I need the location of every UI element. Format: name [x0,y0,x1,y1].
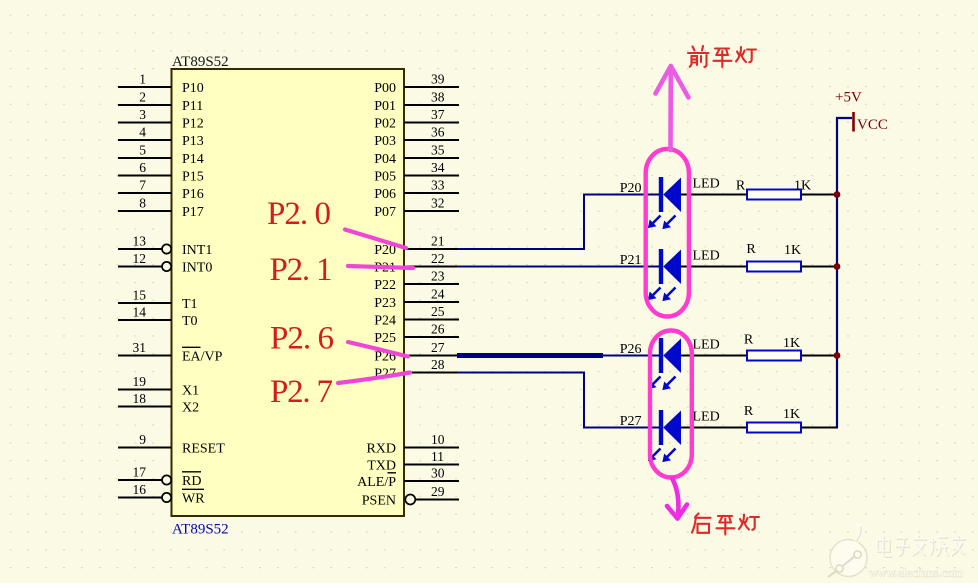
svg-text:8: 8 [139,196,146,211]
LED4 emission arrow b [663,449,676,462]
svg-text:LED: LED [693,410,720,425]
LED4 (LED D4) cathode bar [659,410,663,445]
svg-text:RXD: RXD [366,441,396,456]
svg-text:www.elecfans.com: www.elecfans.com [869,566,964,580]
svg-text:P2. 1: P2. 1 [270,252,333,288]
svg-text:13: 13 [133,234,147,249]
svg-text:36: 36 [431,125,445,140]
wire pin 4 stub (P13) [118,139,172,141]
svg-text:P23: P23 [374,296,396,311]
svg-text:26: 26 [431,322,445,337]
wire pin 28 stub (P27) [404,372,459,374]
LED2 emission arrow a [649,288,661,300]
LED1 triangle [663,178,681,213]
svg-text:1K: 1K [784,243,801,258]
wire pin 3 stub (P12) [118,122,172,124]
annotation arrow down (rear) [667,478,687,519]
annotation oval around LED3 LED4 (rear lights) [650,331,692,478]
wire pin 8 stub (P17) [118,210,172,212]
svg-text:15: 15 [133,288,147,303]
wire LED3 to R3 [681,355,747,357]
wire LED1 to R1 [681,194,747,196]
wire pin 26 stub (P25) [404,336,459,338]
overline for EA/VP [182,346,201,348]
svg-text:P16: P16 [182,187,204,202]
wire pin 35 stub (P04) [404,157,459,159]
svg-text:29: 29 [431,484,445,499]
power symbol VCC bar [852,112,855,132]
svg-text:30: 30 [431,466,445,481]
annotation pointer line P2.6 [348,342,408,357]
svg-text:RD: RD [182,474,201,489]
wire pin 21 stub (P20) [404,248,459,250]
junction node dot row3 [834,352,841,359]
junction node dot row2 [834,263,841,270]
svg-text:P04: P04 [374,152,396,167]
overline for RD [182,471,201,473]
svg-text:P05: P05 [374,169,396,184]
svg-text:P12: P12 [182,116,204,131]
svg-text:P22: P22 [374,278,396,293]
wire pin 9 stub (RESET) [118,447,172,449]
wire pin 32 stub (P07) [404,210,459,212]
svg-text:R: R [736,179,746,194]
svg-text:VCC: VCC [857,117,888,133]
svg-text:25: 25 [431,304,445,319]
wire pin 33 stub (P06) [404,192,459,194]
wire pin 5 stub (P14) [118,157,172,159]
svg-text:5: 5 [139,143,146,158]
svg-text:P2. 7: P2. 7 [270,374,333,410]
LED1 emission arrow b [663,216,676,229]
LED3 emission arrow a [649,377,661,389]
svg-text:4: 4 [139,125,146,140]
svg-text:LED: LED [693,249,720,264]
annotation pointer line P2.7 [338,373,410,384]
svg-text:P25: P25 [374,331,396,346]
svg-text:2: 2 [139,90,146,105]
LED1 (LED D1) cathode bar [659,177,663,212]
wire pin 39 stub (P00) [404,86,459,88]
watermark logo circle [828,525,867,577]
svg-text:P02: P02 [374,116,396,131]
wire pin 38 stub (P01) [404,104,459,106]
LED3 emission arrow b [663,377,676,390]
svg-text:LED: LED [693,338,720,353]
svg-text:31: 31 [133,340,147,355]
wire pin 17 stub (RD) [118,479,162,481]
svg-text:INT0: INT0 [182,260,212,275]
svg-text:1K: 1K [783,336,800,351]
wire pin 15 stub (T1) [118,302,172,304]
wire net P27 from pin 28 to LED4 [457,373,659,428]
svg-text:RESET: RESET [182,441,225,456]
svg-text:10: 10 [431,432,445,447]
svg-text:P00: P00 [374,81,396,96]
wire pin 29 stub (PSEN) [416,499,460,501]
svg-text:P15: P15 [182,169,204,184]
svg-text:P2. 0: P2. 0 [267,196,331,232]
svg-text:39: 39 [431,72,445,87]
svg-text:P17: P17 [182,205,204,220]
svg-text:3: 3 [139,107,146,122]
op-amp U1 AT89S52 microcontroller body [172,69,405,516]
svg-text:18: 18 [133,391,147,406]
wire pin 30 stub (ALE/P) [404,480,459,482]
wire net P21 from pin 22 to LED2 [457,266,659,268]
LED4 emission arrow a [649,449,661,461]
svg-text:16: 16 [133,482,147,497]
overline for WR [182,488,204,490]
svg-text:22: 22 [431,251,445,266]
svg-text:P13: P13 [182,134,204,149]
svg-text:37: 37 [431,107,445,122]
svg-text:6: 6 [139,160,146,175]
svg-text:P01: P01 [374,99,396,114]
svg-text:11: 11 [431,449,444,464]
LED3 (LED D3) cathode bar [659,338,663,373]
wire pin 10 stub (RXD) [404,447,459,449]
wire VCC vertical rail [837,118,852,428]
LED2 emission arrow b [663,288,676,301]
svg-text:R: R [744,404,754,419]
svg-text:1K: 1K [783,407,800,422]
annotation pointer line P2.1 [348,266,413,268]
svg-text:32: 32 [431,196,445,211]
wire R1 to VCC rail [801,194,838,196]
svg-text:33: 33 [431,178,445,193]
annotation chinese text 前车灯 (front lights) [688,46,709,67]
svg-text:WR: WR [182,491,205,506]
pin 16 inversion bubble [162,493,171,502]
wire net P26 thin segment to LED3 [603,355,659,357]
svg-text:P03: P03 [374,134,396,149]
resistor R3 body [747,351,801,361]
wire LED2 to R2 [681,266,747,268]
wire pin 7 stub (P16) [118,192,172,194]
overline for ALE/P bar over P [388,472,397,474]
svg-text:P06: P06 [374,187,396,202]
svg-text:12: 12 [133,251,147,266]
wire pin 31 stub (EA/VP) [118,355,172,357]
wire pin 36 stub (P03) [404,139,459,141]
svg-text:1K: 1K [794,179,811,194]
junction node dot row1 [834,191,841,198]
svg-text:T1: T1 [182,297,198,312]
svg-text:9: 9 [139,432,146,447]
svg-text:X1: X1 [182,383,199,398]
svg-text:P11: P11 [182,99,203,114]
LED1 emission arrow a [649,216,661,228]
svg-text:P10: P10 [182,81,204,96]
wire pin 6 stub (P15) [118,175,172,177]
svg-text:P26: P26 [620,342,642,357]
svg-text:LED: LED [693,177,720,192]
svg-text:7: 7 [139,178,146,193]
svg-text:ALE/P: ALE/P [357,475,396,490]
svg-text:+5V: +5V [835,90,862,106]
LED2 triangle [663,250,681,285]
annotation pointer line P2.0 [345,230,406,249]
wire pin 27 stub (P26) [404,355,459,357]
pin 17 inversion bubble [162,475,171,484]
svg-text:R: R [746,242,756,257]
svg-text:EA/VP: EA/VP [182,349,223,364]
svg-text:PSEN: PSEN [362,493,396,508]
svg-text:T0: T0 [182,314,198,329]
LED2 (LED D2) cathode bar [659,249,663,284]
annotation chinese text 后车灯 (rear lights) [692,514,711,533]
wire pin 25 stub (P24) [404,319,459,321]
svg-text:1: 1 [139,72,146,87]
wire pin 18 stub (X2) [118,406,172,408]
wire R4 to VCC rail [801,427,838,429]
svg-text:AT89S52: AT89S52 [172,54,229,70]
svg-text:R: R [744,333,754,348]
wire pin 19 stub (X1) [118,389,172,391]
svg-text:P20: P20 [620,181,642,196]
svg-text:17: 17 [133,465,147,480]
wire pin 12 stub (INT0) [118,266,162,268]
wire pin 1 stub (P10) [118,86,172,88]
svg-text:24: 24 [431,287,445,302]
wire pin 11 stub (TXD) [404,464,459,466]
pin 29 inversion bubble [405,495,415,505]
watermark text 电子发烧友 (embossed) [878,536,966,557]
svg-text:P27: P27 [620,414,642,429]
svg-text:INT1: INT1 [182,243,212,258]
svg-text:P21: P21 [620,253,642,268]
wire pin 13 stub (INT1) [118,248,162,250]
svg-text:14: 14 [133,305,147,320]
svg-text:27: 27 [431,340,445,355]
wire pin 16 stub (WR) [118,497,162,499]
wire pin 22 stub (P21) [404,266,459,268]
svg-text:28: 28 [431,357,445,372]
svg-text:P2. 6: P2. 6 [270,321,334,357]
annotation oval around LED1 LED2 (front lights) [646,149,689,317]
svg-text:P24: P24 [374,313,396,328]
svg-text:P07: P07 [374,205,396,220]
svg-text:38: 38 [431,90,445,105]
wire R3 to VCC rail [801,355,838,357]
wire net P20 from pin 21 to LED1 [457,195,659,250]
svg-text:21: 21 [431,234,445,249]
resistor R2 body [747,262,801,272]
svg-text:AT89S52: AT89S52 [172,522,229,538]
pin 12 inversion bubble [162,262,171,271]
svg-text:34: 34 [431,160,445,175]
svg-text:P14: P14 [182,152,204,167]
svg-text:35: 35 [431,143,445,158]
svg-text:TXD: TXD [367,458,396,473]
LED3 triangle [663,339,681,374]
wire pin 34 stub (P05) [404,175,459,177]
wire pin 23 stub (P22) [404,283,459,285]
wire net P26 bold highlighted segment from pin 27 [457,353,603,358]
wire LED4 to R4 [681,427,747,429]
resistor R1 body [747,190,801,200]
wire pin 14 stub (T0) [118,319,172,321]
annotation arrow up (front) [656,66,689,150]
resistor R4 body [747,423,801,433]
svg-text:23: 23 [431,269,445,284]
wire pin 24 stub (P23) [404,301,459,303]
LED4 triangle [663,411,681,446]
wire pin 2 stub (P11) [118,104,172,106]
wire pin 37 stub (P02) [404,122,459,124]
wire R2 to VCC rail [801,266,838,268]
pin 13 inversion bubble [162,244,171,253]
svg-text:19: 19 [133,374,147,389]
svg-text:X2: X2 [182,400,199,415]
